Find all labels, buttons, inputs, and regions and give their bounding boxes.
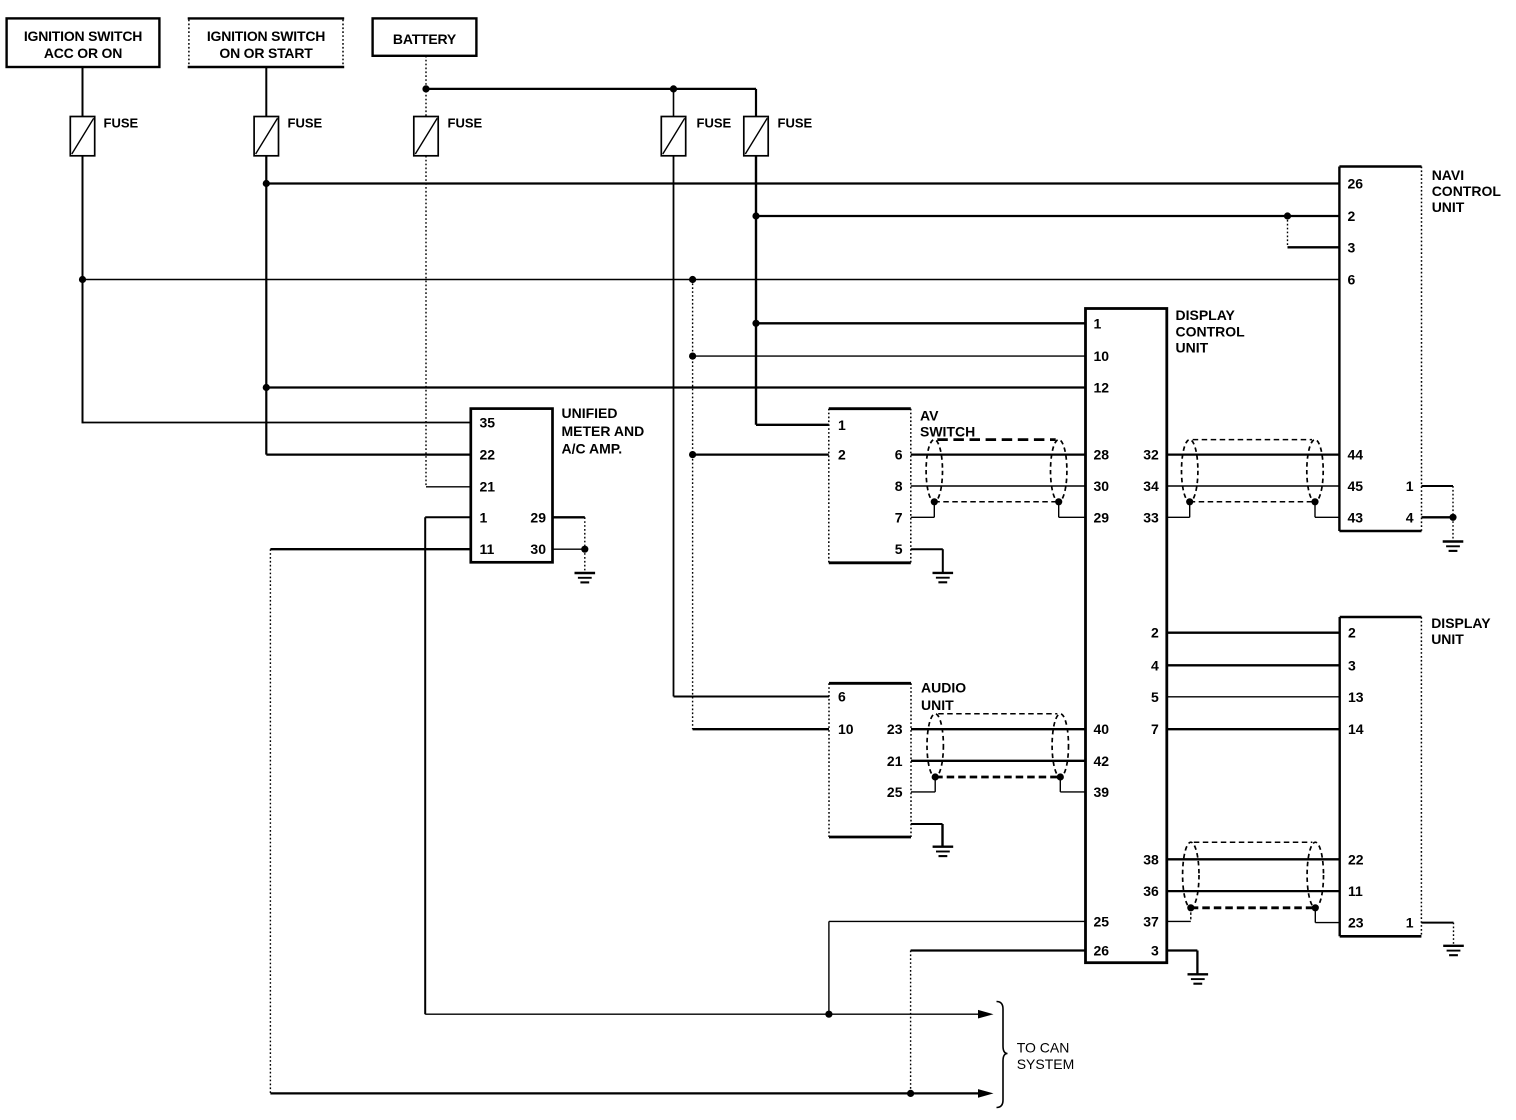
wire: F4 to audio pin 6 [674,696,830,698]
svg-text:2: 2 [1348,625,1356,641]
junction: DCU26 / CAN line 2 [907,1090,914,1097]
svg-text:36: 36 [1143,883,1159,899]
wire: link to NAVI pin 3 [1288,246,1340,248]
svg-text:39: 39 [1094,784,1110,800]
wire: DCU34 to NAVI45 [1167,485,1340,487]
svg-text:1: 1 [838,417,846,433]
junction: ACC branch tap [689,276,696,283]
svg-text:38: 38 [1143,851,1159,867]
label: DISPLAY UNIT [1431,615,1491,647]
wire: DCU3 ground drop [1196,951,1198,975]
svg-text:1: 1 [1406,478,1414,494]
svg-text:23: 23 [887,721,903,737]
wire: UM pin 11 stub [270,548,470,550]
svg-text:43: 43 [1348,509,1364,525]
svg-text:26: 26 [1094,943,1110,959]
svg-text:13: 13 [1348,689,1364,705]
svg-text:DISPLAY: DISPLAY [1431,615,1491,631]
wire: DCU pin 3 ground stub [1167,949,1198,951]
svg-text:8: 8 [895,478,903,494]
fuse F5 (battery) [744,116,813,156]
display unit box [1340,617,1422,936]
svg-text:1: 1 [1406,915,1414,931]
wire: F5 net to AV pin 1 [756,424,829,426]
svg-text:45: 45 [1348,478,1364,494]
svg-text:3: 3 [1348,239,1356,255]
svg-text:3: 3 [1348,657,1356,673]
wire: DCU29 shield drain stub [1059,516,1086,518]
svg-text:22: 22 [1348,851,1364,867]
fuse F2 (ON/START) [254,116,322,156]
wire: AV8 to DCU30 [911,485,1086,487]
wire: audio21 to DCU42 [911,760,1086,762]
svg-text:SYSTEM: SYSTEM [1017,1056,1075,1072]
svg-text:25: 25 [1094,913,1110,929]
junction: F1 / pin6 wire [79,276,86,283]
wire: DU pin 1 ground stub [1421,922,1453,924]
wire: F5 down to AV pin 1 corner [755,156,757,425]
wire: battery feed bus [426,88,756,90]
svg-text:30: 30 [530,541,546,557]
wire: battery drop (dotted) to fuse F3 [425,56,427,117]
wire: DCU pin 26 out [911,949,1086,951]
junction: branch / DCU10 [689,353,696,360]
svg-text:4: 4 [1406,509,1414,525]
display control unit box [1086,309,1167,963]
AV switch box [829,409,911,563]
wire: feed corner to fuse F5 [755,89,757,117]
arrow: CAN line 2 [978,1089,994,1098]
wire: DCU25 down to CAN line 1 [828,921,830,1014]
shielded cable: DCU to NAVI [1182,440,1324,502]
svg-text:21: 21 [887,753,903,769]
wire: ACC branch to AV pin 2 [693,453,829,455]
wire: ACC branch (dotted) down to audio pin 10 [692,280,694,730]
wire: DCU4 to DU3 [1167,664,1340,666]
svg-text:UNIT: UNIT [1431,631,1464,647]
shielded cable: DCU to DU [1183,842,1324,908]
svg-text:30: 30 [1094,478,1110,494]
junction: NAVI pin1/4 ground [1449,514,1456,521]
wire: drain vertical NAVI43 [1314,502,1316,518]
junction: pin2/pin3 link [1284,212,1291,219]
wire: feed to fuse F4 [673,89,675,117]
svg-text:DISPLAY: DISPLAY [1176,307,1236,323]
label: AV SWITCH [920,407,975,439]
wire: audio ground stub [911,823,943,825]
fuse F4 (battery) [661,116,731,156]
svg-text:42: 42 [1094,753,1110,769]
label: DISPLAY CONTROL UNIT [1176,307,1246,356]
wire: drain hook [1190,908,1192,922]
ground: navi control unit [1443,542,1464,551]
svg-text:12: 12 [1094,380,1110,396]
wire: NAVI pin 1 ground stub [1422,485,1454,487]
svg-text:21: 21 [480,479,496,495]
svg-text:11: 11 [1348,883,1363,899]
wire: F2 net to DCU pin 12 [266,386,1085,388]
wire: shield to DU23 vertical [1314,908,1316,923]
wire: drain vertical [1189,502,1191,518]
svg-text:5: 5 [895,541,903,557]
svg-text:2: 2 [1348,208,1356,224]
wire: audio25 shield drain stub [911,791,935,793]
wire: DCU38 to DU22 [1167,858,1340,860]
junction: F5 / pin2 wire [752,212,759,219]
wire: F3 down (dotted) to UM pin 21 corner [425,156,427,487]
audio unit box [829,683,911,837]
svg-text:FUSE: FUSE [448,116,483,131]
svg-text:28: 28 [1094,447,1110,463]
wire: UM pin 1 stub [425,516,470,518]
junction: DCU25 / CAN line 1 [825,1011,832,1018]
wire: DCU26 down (dotted) to CAN line 2 [910,951,912,1094]
wire: ACC branch to DCU pin 10 [693,355,1086,357]
svg-text:5: 5 [1151,689,1159,705]
svg-text:TO CAN: TO CAN [1017,1040,1070,1056]
svg-text:NAVI: NAVI [1432,167,1464,183]
wire: DCU pin 25 out [829,920,1086,922]
wire: down to UM ground [584,549,586,573]
junction: branch / AV2 [689,451,696,458]
wire: F5 net to NAVI pin 2 [756,215,1339,217]
ground: unified meter [575,573,596,582]
wire: F1 net to UM pin 35 [83,422,471,424]
junction: F2 / DCU12 wire [263,384,270,391]
svg-text:3: 3 [1151,943,1159,959]
wire: pin1 drop (dotted) [1452,486,1454,517]
wire: shield drain to DU pin 23 [1315,922,1339,924]
wire: UM pin 29 stub [553,516,585,518]
wire: AV5 ground stub [911,548,943,550]
svg-text:26: 26 [1348,176,1364,192]
ignition switch ON/START box [188,18,345,67]
wire: UM pin 11 down (dotted) to CAN line 2 [269,549,271,1093]
ignition switch ACC box [7,18,160,67]
label: TO CAN SYSTEM [1017,1040,1075,1072]
wire: drain vertical [933,502,935,518]
svg-text:14: 14 [1348,721,1364,737]
navi control unit box [1339,167,1421,532]
svg-text:2: 2 [838,447,846,463]
wire: NAVI pin 4 ground stub [1422,516,1454,518]
wire: CAN line 2 [270,1092,978,1094]
wire: F4 down to audio pin 6 [673,156,675,697]
wire: F2 net to UM pin 22 [266,453,470,455]
wire: audio23 to DCU40 [911,728,1086,730]
svg-text:2: 2 [1151,625,1159,641]
fuse F1 (ACC) [70,116,138,156]
svg-text:FUSE: FUSE [778,116,813,131]
svg-text:29: 29 [530,509,546,525]
arrow: CAN line 1 [978,1010,994,1019]
svg-text:6: 6 [838,689,846,705]
svg-text:6: 6 [1348,272,1356,288]
wire: F1 down to UM pin 35 corner [82,156,84,424]
wire: CAN line 1 [425,1013,978,1015]
wire: F2 down to UM pin 22 corner [265,156,267,455]
junction: battery feed [422,85,429,92]
svg-text:AV: AV [920,407,939,423]
wire: ACC box to fuse F1 [82,67,84,117]
wire: UM pin 30 stub [553,548,585,550]
svg-text:44: 44 [1348,447,1364,463]
wire: DU ground drop (dotted) [1453,923,1455,946]
wire: F2 net to NAVI pin 26 [266,182,1339,184]
svg-text:33: 33 [1143,509,1159,525]
battery box [373,18,477,55]
wire: DCU33 shield drain stub [1167,516,1190,518]
svg-text:UNIFIED: UNIFIED [562,405,618,421]
svg-text:32: 32 [1143,447,1159,463]
svg-text:BATTERY: BATTERY [393,31,457,47]
svg-text:35: 35 [480,415,496,431]
ground: display unit [1443,946,1464,955]
svg-text:CONTROL: CONTROL [1176,323,1246,339]
svg-text:40: 40 [1094,721,1110,737]
shielded cable: audio to DCU [927,714,1069,777]
svg-text:4: 4 [1151,657,1159,673]
wire: UM pin 1 down to CAN line 1 [424,517,426,1014]
wire: drain vertical [934,777,936,792]
svg-text:23: 23 [1348,915,1364,931]
svg-text:FUSE: FUSE [104,116,139,131]
svg-text:IGNITION SWITCH: IGNITION SWITCH [24,28,142,44]
wire: DCU5 to DU13 [1167,696,1340,698]
svg-text:UNIT: UNIT [921,697,954,713]
label: UNIFIED METER AND A/C AMP. [562,405,645,456]
junction: F2 / pin26 wire [263,180,270,187]
svg-text:22: 22 [480,447,496,463]
wire: DCU2 to DU2 [1167,632,1340,634]
junction: pin29/30 ground [581,546,588,553]
junction: F5 / DCU1 wire [752,320,759,327]
wire: DCU39 shield drain stub [1060,791,1085,793]
svg-text:ACC OR ON: ACC OR ON [44,45,122,61]
svg-text:SWITCH: SWITCH [920,423,975,439]
wire: DCU7 to DU14 [1167,728,1340,730]
wire: down to NAVI ground [1452,517,1454,541]
svg-text:AUDIO: AUDIO [921,680,966,696]
wire: AV6 to DCU28 [911,453,1086,455]
wire: DCU32 to NAVI44 [1167,453,1340,455]
wire: ACC net to NAVI pin 6 [83,279,1340,281]
unified meter and A/C amp box U-M [471,409,553,563]
label: NAVI CONTROL UNIT [1432,167,1502,215]
svg-text:7: 7 [1151,721,1159,737]
svg-text:37: 37 [1143,913,1159,929]
svg-text:1: 1 [1094,315,1102,331]
wire: battery net to UM pin 21 [426,486,471,488]
ground: DCU pin 3 [1188,974,1209,983]
wire: AV5 ground drop [942,549,944,573]
ground: audio unit [933,847,954,856]
svg-text:UNIT: UNIT [1432,199,1465,215]
svg-text:METER AND: METER AND [562,423,645,439]
svg-text:FUSE: FUSE [288,116,323,131]
wire: F5 net to DCU pin 1 [756,322,1086,324]
junction: F4 tap [670,85,677,92]
brace: to CAN system [997,1002,1008,1108]
svg-text:CONTROL: CONTROL [1432,183,1502,199]
wire: DCU36 to DU11 [1167,890,1340,892]
svg-text:UNIT: UNIT [1176,340,1209,356]
wire: NAVI pin2-pin3 link vertical (dotted) [1287,216,1289,247]
wire: DCU37 shield drain stub [1167,920,1191,922]
svg-text:7: 7 [895,509,903,525]
svg-text:FUSE: FUSE [697,116,732,131]
wire: drain vertical DCU29 [1058,502,1060,518]
svg-text:A/C AMP.: A/C AMP. [562,440,623,456]
svg-text:25: 25 [887,784,903,800]
svg-text:IGNITION SWITCH: IGNITION SWITCH [207,28,325,44]
wire: pin29 down (dotted) [584,517,586,549]
wire: drain vertical DCU39 [1059,777,1061,792]
svg-text:6: 6 [895,447,903,463]
wire: audio ground drop [941,824,943,847]
svg-text:10: 10 [838,721,854,737]
wire: AV7 shield drain stub [911,516,935,518]
fuse F3 (battery) [414,116,483,156]
svg-text:34: 34 [1143,478,1159,494]
wire: ACC branch to audio pin 10 [693,728,829,730]
wire: NAVI43 shield drain stub [1315,516,1339,518]
svg-text:ON OR START: ON OR START [219,45,313,61]
svg-text:10: 10 [1094,348,1110,364]
svg-text:11: 11 [480,541,495,557]
ground: AV switch [933,573,954,582]
label: AUDIO UNIT [921,680,966,714]
wire: ON/START box to fuse F2 [265,67,267,117]
svg-text:1: 1 [480,509,488,525]
shielded cable: AV to DCU [926,440,1067,502]
svg-text:29: 29 [1094,509,1110,525]
